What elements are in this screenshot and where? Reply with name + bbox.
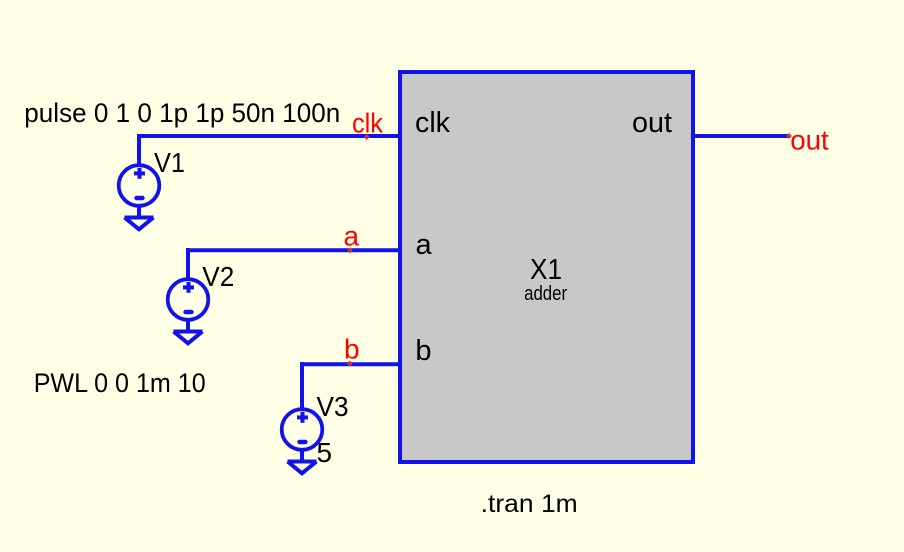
svg-text:5: 5 — [317, 437, 333, 468]
svg-text:clk: clk — [415, 107, 450, 139]
wire clk horizontal — [139, 134, 400, 138]
svg-text:V3: V3 — [317, 391, 349, 422]
wire a vertical to V2 — [186, 248, 190, 279]
subcircuit box U/X1 body — [400, 72, 693, 462]
svg-text:out: out — [790, 124, 829, 155]
voltage source V2 — [168, 279, 209, 331]
svg-text:pulse 0 1 0 1p 1p 50n 100n: pulse 0 1 0 1p 1p 50n 100n — [24, 98, 340, 128]
svg-text:.tran 1m: .tran 1m — [481, 490, 578, 518]
wire clk vertical to V1 — [137, 134, 141, 165]
svg-text:a: a — [344, 221, 360, 252]
ground below V1 — [125, 218, 154, 230]
node dot out — [786, 133, 792, 139]
node dot b — [347, 361, 353, 367]
svg-text:b: b — [415, 335, 431, 367]
voltage source V3 — [282, 409, 323, 461]
svg-text:a: a — [416, 229, 433, 261]
svg-text:X1: X1 — [530, 254, 562, 286]
wire a horizontal — [188, 248, 400, 252]
wire b horizontal — [302, 362, 400, 366]
svg-text:out: out — [632, 107, 672, 139]
wire b vertical to V3 — [300, 362, 304, 409]
svg-text:b: b — [344, 334, 360, 365]
node dot a — [347, 247, 353, 253]
svg-text:V1: V1 — [154, 147, 185, 178]
ground below V3 — [288, 462, 317, 474]
node dot clk — [364, 134, 370, 140]
ground below V2 — [174, 332, 203, 344]
svg-text:V2: V2 — [202, 261, 234, 292]
voltage source V1 — [119, 165, 160, 217]
svg-text:clk: clk — [352, 107, 384, 138]
svg-text:PWL 0 0 1m 10: PWL 0 0 1m 10 — [34, 368, 206, 398]
svg-text:adder: adder — [524, 283, 567, 305]
wire out — [693, 134, 790, 138]
